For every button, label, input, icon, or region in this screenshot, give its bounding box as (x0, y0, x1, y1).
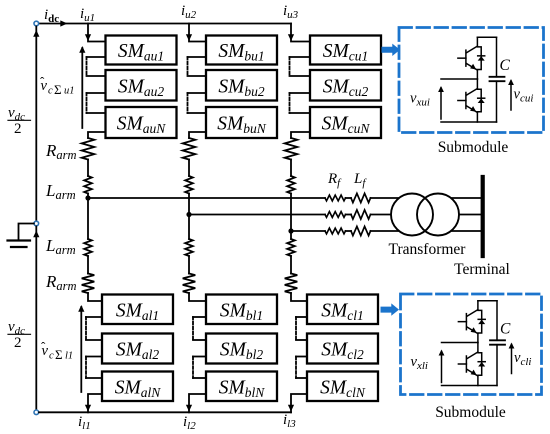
transistor Q2 lower IGBT (458, 79, 485, 122)
submodule block SM_al1 (102, 295, 173, 325)
label v_c_sum_l1 (41, 339, 73, 362)
wire dashed link SM_cl1-SM_cl2 (295, 317, 297, 340)
wire SM_bl1 lower stub (193, 316, 206, 318)
wire SM_au2 lower stub (87, 92, 106, 94)
svg-text:2: 2 (14, 121, 22, 137)
label i_dc (44, 7, 59, 25)
submodule block SM_alN (102, 372, 173, 402)
wire SM output mid rail (442, 342, 478, 344)
voltage arrow v_c_sum_l1 (78, 305, 84, 392)
submodule block SM_auN (106, 107, 177, 138)
svg-text:ˆ: ˆ (40, 74, 45, 89)
wire left DC rail upper half (35, 27, 37, 221)
submodule block SM_bl2 (206, 334, 277, 364)
submodule block SM_bu2 (206, 70, 277, 101)
submodule block SM_cl2 (307, 334, 378, 364)
svg-text:u1: u1 (64, 86, 75, 97)
transformer (391, 194, 459, 236)
wire SM_bu2 upper stub (188, 75, 207, 77)
label C (500, 57, 511, 74)
wire AC tap to lower arm (188, 215, 190, 240)
submodule detail box lower (dashed) (401, 294, 542, 395)
wire SM_buN lower stub (189, 132, 206, 138)
wire SM top rail (477, 36, 496, 38)
wire dashed link SM_bu1-SM_bu2 (187, 57, 189, 76)
svg-text:Σ: Σ (55, 347, 63, 362)
node DC positive terminal (34, 21, 39, 26)
label i_u2 (181, 3, 197, 21)
label R_f (327, 171, 342, 189)
wire AC phase line 2 (189, 214, 325, 216)
resistor R_arm upper phase b (183, 138, 196, 160)
wire to ground (19, 224, 34, 241)
svg-text:Submodule: Submodule (435, 404, 506, 421)
submodule block SM_cl1 (307, 295, 378, 325)
wire SM_cu2 upper stub (290, 75, 311, 77)
wire SM right rail upper (496, 301, 498, 341)
node AC tap phase b (186, 212, 191, 217)
label Submodule lower (435, 404, 506, 421)
wire SM_al2 upper stub (86, 339, 102, 341)
wire transformer to terminal phase 1 (440, 197, 482, 199)
wire dashed link SM_au2-SM_auN (86, 93, 88, 113)
wire dashed link SM_al2-SM_alN (85, 357, 87, 379)
submodule block SM_buN (206, 107, 277, 138)
wire SM_cu2 lower stub (290, 92, 311, 94)
wire SM bottom rail (442, 385, 498, 387)
wire SM right rail upper (496, 37, 498, 77)
wire SM_cl2 upper stub (296, 339, 307, 341)
node AC tap phase a (85, 195, 90, 200)
submodule block SM_blN (206, 372, 277, 402)
label C (500, 321, 511, 338)
ground (8, 241, 31, 248)
submodule block SM_bu1 (206, 36, 277, 65)
wire SM bottom rail (441, 121, 497, 123)
wire into lower submodules (88, 293, 102, 301)
wire phase a return to DC bus (85, 394, 102, 412)
svg-text:Transformer: Transformer (389, 241, 467, 258)
resistor R_f phase 1 (325, 195, 346, 201)
wire SM_cuN upper stub (290, 112, 311, 114)
node DC negative terminal (34, 410, 39, 415)
wire bottom DC bus (39, 411, 291, 413)
inductor L_f phase 2 (351, 210, 371, 219)
current arrow i_dc (60, 20, 67, 26)
label i_l2 (183, 414, 196, 432)
label Terminal (454, 261, 510, 278)
voltage arrow v_xui (438, 86, 444, 119)
wire phase c return to DC bus (288, 394, 307, 412)
callout arrow lower submodule (381, 303, 400, 315)
wire dashed link SM_bu2-SM_buN (187, 93, 189, 113)
label v_dc/2 upper (8, 105, 31, 137)
inductor L_arm lower phase c (287, 239, 295, 256)
wire dashed link SM_bl2-SM_blN (192, 357, 194, 379)
label v_cui (514, 87, 534, 105)
label R_arm upper (45, 141, 77, 162)
submodule detail box upper (dashed) (399, 28, 544, 133)
transistor Q4 lower IGBT (458, 343, 485, 386)
wire phase a upper feed from DC bus (85, 24, 106, 42)
wire (346, 230, 352, 232)
wire top DC bus (39, 23, 291, 25)
wire dashed link SM_au1-SM_au2 (86, 57, 88, 76)
svg-text:l1: l1 (65, 351, 73, 362)
resistor R_f phase 3 (325, 228, 346, 234)
wire SM_buN upper stub (188, 112, 207, 114)
svg-text:2: 2 (14, 335, 22, 351)
voltage arrow v_cui (508, 79, 514, 110)
wire SM_auN upper stub (87, 112, 106, 114)
wire SM_cuN lower stub (291, 132, 310, 138)
transistor Q1 upper IGBT (458, 37, 485, 79)
wire SM_alN upper stub (86, 377, 102, 379)
wire phase c upper feed from DC bus (288, 24, 310, 42)
svg-text:ˆ: ˆ (41, 339, 46, 354)
voltage arrow v_xli (439, 350, 445, 383)
label v_xui (410, 91, 430, 109)
submodule block SM_cuN (310, 107, 381, 138)
wire dashed link SM_cu1-SM_cu2 (289, 57, 291, 76)
wire SM right rail lower (496, 81, 498, 122)
label Transformer (389, 241, 467, 258)
capacitor C (490, 77, 505, 81)
label i_u1 (80, 6, 95, 24)
wire AC tap to lower arm (87, 198, 89, 239)
node DC midpoint (34, 221, 39, 226)
wire SM_cu1 lower stub (290, 56, 311, 58)
wire into lower submodules (189, 293, 206, 301)
wire (346, 214, 352, 216)
transistor Q3 upper IGBT (458, 301, 485, 343)
capacitor C (490, 340, 505, 344)
wire dashed link SM_al1-SM_al2 (85, 317, 87, 340)
wire to transformer (371, 214, 405, 216)
submodule block SM_cu2 (310, 70, 381, 101)
submodule block SM_cu1 (310, 36, 381, 65)
label v_cli (514, 350, 531, 368)
wire (290, 160, 292, 177)
label L_f (353, 171, 367, 189)
wire SM output mid rail (441, 78, 477, 80)
resistor R_f phase 2 (325, 212, 346, 218)
wire AC phase line 1 (88, 197, 325, 199)
svg-text:C: C (500, 321, 511, 338)
svg-text:Terminal: Terminal (454, 261, 510, 278)
inductor L_f phase 3 (351, 226, 371, 235)
wire SM_al1 lower stub (86, 316, 102, 318)
submodule block SM_bl1 (206, 295, 277, 325)
callout arrow upper submodule (382, 44, 401, 56)
svg-text:C: C (500, 57, 511, 74)
wire to AC tap (188, 194, 190, 215)
wire to transformer (371, 197, 405, 199)
submodule block SM_au2 (106, 70, 177, 101)
wire SM_bu1 lower stub (188, 56, 207, 58)
label i_l3 (283, 412, 296, 430)
wire transformer to terminal phase 2 (440, 214, 482, 216)
wire to AC tap (290, 194, 292, 232)
inductor L_arm lower phase a (84, 239, 92, 256)
wire SM_clN upper stub (296, 377, 307, 379)
wire SM_bl2 upper stub (193, 339, 206, 341)
voltage arrow v_cli (509, 343, 515, 374)
wire left DC rail lower half (35, 227, 37, 411)
wire SM_al2 lower stub (86, 356, 102, 358)
resistor R_arm lower phase b (183, 274, 196, 294)
wire SM_bu2 lower stub (188, 92, 207, 94)
wire SM_bl2 lower stub (193, 356, 206, 358)
svg-text:Submodule: Submodule (438, 139, 509, 156)
resistor R_arm upper phase c (285, 138, 298, 160)
voltage arrow v_dc/2 lower (33, 231, 39, 238)
wire AC phase line 3 (291, 230, 325, 232)
wire phase b upper feed from DC bus (186, 24, 206, 42)
resistor R_arm lower phase a (82, 274, 95, 294)
voltage arrow v_dc/2 upper (33, 30, 39, 37)
wire (87, 160, 89, 177)
resistor R_arm lower phase c (285, 274, 298, 294)
svg-text:c: c (49, 351, 54, 362)
wire dashed link SM_cl2-SM_clN (295, 357, 297, 379)
wire dashed link SM_bl1-SM_bl2 (192, 317, 194, 340)
wire SM_cl1 lower stub (296, 316, 307, 318)
inductor L_arm upper phase c (287, 176, 295, 194)
wire (87, 256, 89, 274)
wire to AC tap (87, 194, 89, 199)
inductor L_arm lower phase b (185, 239, 193, 256)
wire (188, 160, 190, 177)
wire phase b return to DC bus (186, 394, 206, 412)
wire SM right rail lower (496, 345, 498, 386)
wire into lower submodules (291, 293, 307, 301)
resistor R_arm upper phase a (82, 138, 95, 160)
inductor L_f phase 1 (351, 193, 371, 202)
wire SM_auN lower stub (88, 132, 106, 138)
label i_l1 (78, 414, 91, 432)
wire SM top rail (478, 300, 497, 302)
label i_u3 (283, 3, 299, 21)
wire SM_au2 upper stub (87, 75, 106, 77)
submodule block SM_clN (307, 372, 378, 402)
label L_arm lower (45, 236, 76, 257)
svg-text:Σ: Σ (54, 82, 62, 97)
terminal bar (481, 177, 485, 256)
label v_dc/2 lower (8, 319, 31, 351)
wire SM_cl2 lower stub (296, 356, 307, 358)
voltage arrow v_c_sum_u1 (79, 46, 85, 128)
wire AC tap to lower arm (290, 231, 292, 239)
submodule block SM_au1 (106, 36, 177, 65)
submodule block SM_al2 (102, 334, 173, 364)
svg-text:c: c (48, 86, 53, 97)
label v_c_sum_u1 (40, 74, 75, 97)
inductor L_arm upper phase a (84, 176, 92, 194)
label Submodule upper (438, 139, 509, 156)
wire SM_blN upper stub (193, 377, 206, 379)
node AC tap phase c (288, 228, 293, 233)
wire dashed link SM_cu2-SM_cuN (289, 93, 291, 113)
wire to transformer (371, 230, 405, 232)
wire (290, 256, 292, 274)
label L_arm upper (45, 181, 76, 202)
wire transformer to terminal phase 3 (440, 230, 482, 232)
wire (188, 256, 190, 274)
label R_arm lower (45, 272, 77, 293)
wire (346, 197, 352, 199)
inductor L_arm upper phase b (185, 176, 193, 194)
label v_xli (411, 354, 428, 372)
wire SM_au1 lower stub (87, 56, 106, 58)
